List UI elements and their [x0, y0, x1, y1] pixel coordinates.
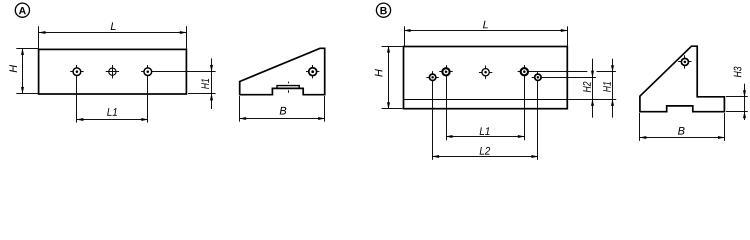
- dimension H1 (view B): [603, 59, 614, 118]
- plate outline B (front view): [404, 47, 568, 109]
- dimension H2 (view B): [583, 59, 594, 118]
- dimension H (view B): [375, 46, 403, 109]
- dimension B (side B): [640, 113, 725, 141]
- dimension L1 (view A): [77, 77, 148, 123]
- centerline (side A): [288, 82, 290, 84]
- step line B: [404, 99, 568, 101]
- plate outline A (front view): [39, 49, 187, 94]
- hole B1 (small, left): [426, 71, 438, 83]
- dimension L1 (view B): [446, 78, 525, 141]
- extension line lower hole (view B right): [544, 77, 596, 79]
- dimension H3 (side B): [726, 67, 748, 120]
- tenon bump A: [277, 86, 299, 89]
- wedge outline B: [640, 46, 725, 112]
- label circle B: [376, 3, 390, 17]
- hole B4 (counterbore, right): [518, 65, 531, 78]
- dimension L (view B): [404, 21, 567, 46]
- dimension B (side A): [240, 96, 325, 122]
- hole B side: [678, 55, 691, 68]
- extension line upper hole (view B right): [531, 71, 588, 73]
- label circle A: [15, 3, 29, 17]
- extension line step (view B right): [568, 99, 616, 101]
- hole B2 (counterbore, left): [439, 65, 452, 78]
- hole B3 (center): [479, 66, 492, 79]
- dimension L2 (view B): [433, 82, 538, 160]
- dimension H (view A): [9, 49, 38, 94]
- wedge outline A: [240, 48, 325, 94]
- hole A side: [306, 65, 319, 78]
- hole A3 (counterbore, right): [141, 65, 154, 78]
- dimension H1 (view A): [153, 58, 216, 109]
- hole A2 (plain, middle): [106, 65, 119, 78]
- hole A1 (counterbore, left): [70, 65, 83, 78]
- dimension L (view A): [39, 22, 187, 48]
- hole B5 (small, right): [532, 71, 544, 83]
